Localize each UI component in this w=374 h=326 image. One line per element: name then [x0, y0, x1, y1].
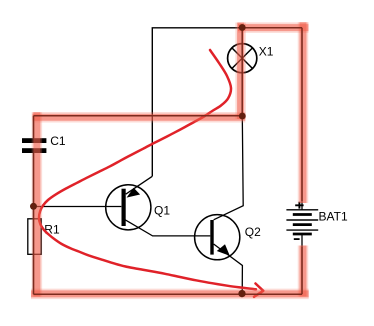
- svg-text:Q1: Q1: [154, 204, 170, 218]
- wire lamp branch vertical: [241, 28, 243, 116]
- resistor R1: [28, 219, 41, 255]
- wire left rail: [33, 116, 35, 295]
- node C left junction dot: [30, 203, 37, 210]
- wire top rail shown through highlight: [238, 27, 302, 29]
- wire top rail: [152, 28, 302, 177]
- red annotation arrowhead: [254, 284, 263, 297]
- node A top junction dot (over highlight): [239, 24, 246, 31]
- highlight overlay: top rail segment: [238, 22, 309, 33]
- svg-text:Q2: Q2: [245, 225, 261, 239]
- wire Q1 base: [34, 206, 122, 208]
- transistor Q1: [106, 176, 153, 230]
- highlight overlay: lamp branch segment: [235, 23, 246, 120]
- capacitor C1: [22, 138, 46, 153]
- svg-text:R1: R1: [44, 223, 60, 237]
- node B mid junction dot (over highlight): [239, 113, 246, 120]
- wire mid horizontal (node to lamp bottom): [34, 115, 243, 117]
- highlight overlay: left rail segment: [32, 112, 43, 296]
- wire Q2 collector riser: [214, 116, 244, 220]
- wire Q1 emitter to Q2 base: [125, 220, 211, 236]
- svg-text:C1: C1: [50, 134, 66, 148]
- svg-text:X1: X1: [259, 44, 274, 58]
- lamp X1: [228, 44, 257, 73]
- node C left junction dot (over highlight): [30, 203, 37, 210]
- node D bottom junction dot (over highlight): [238, 290, 245, 297]
- wire right rail lower (from battery -): [301, 234, 303, 294]
- highlight overlay: right rail lower segment: [298, 246, 309, 297]
- battery BAT1: [286, 202, 318, 240]
- node A top junction dot: [239, 24, 246, 31]
- wire bottom rail: [34, 293, 303, 295]
- highlight overlay: bottom rail segment: [31, 289, 309, 300]
- red current-flow annotation curve: [39, 50, 256, 289]
- wire left rail shown through highlight: [33, 116, 35, 295]
- wire lamp branch shown through highlight: [241, 28, 243, 116]
- svg-text:BAT1: BAT1: [319, 209, 348, 223]
- wire right rail upper (to battery +): [301, 28, 303, 210]
- wire right rail upper shown through highlight: [301, 28, 303, 201]
- highlight overlay: right rail upper segment: [298, 22, 309, 203]
- node D bottom junction dot: [238, 290, 245, 297]
- node B mid junction dot: [239, 113, 246, 120]
- wire right rail lower shown through highlight: [301, 247, 303, 295]
- wire mid horizontal shown through highlight: [34, 115, 243, 117]
- transistor Q2: [195, 215, 240, 260]
- wire bottom rail shown through highlight: [34, 293, 303, 295]
- highlight overlay: mid horizontal segment: [33, 112, 246, 123]
- wire Q2 emitter drop: [214, 244, 243, 294]
